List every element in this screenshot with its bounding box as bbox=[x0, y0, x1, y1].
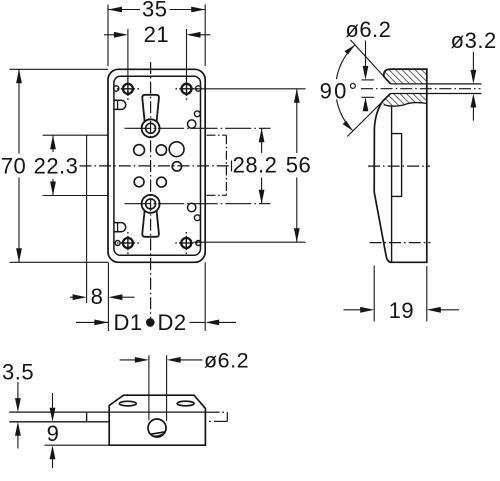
left edge slot 1 bbox=[114, 100, 126, 109]
label dia 6.2 side bbox=[345, 17, 391, 42]
interior hole b bbox=[156, 145, 166, 155]
tongue edge extension line bbox=[86, 135, 88, 303]
dim dia6.2 bottom line bbox=[120, 357, 203, 363]
dim D1 D2 line left bbox=[76, 320, 108, 326]
svg-text:28.2: 28.2 bbox=[233, 153, 278, 178]
dim 22.3 line bbox=[50, 135, 56, 195]
bottom view phantom top bbox=[205, 412, 227, 421]
countersink construction line upper bbox=[350, 40, 390, 84]
dim D2 text bbox=[157, 310, 186, 335]
side view screw hole top line bbox=[391, 83, 482, 85]
right edge hole bottom bbox=[188, 203, 196, 211]
svg-text:90°: 90° bbox=[320, 78, 360, 103]
mounting screw hole 3 with crosshair bbox=[117, 232, 139, 254]
phantom follower box top bbox=[207, 134, 227, 136]
extension line 22.3 bottom bbox=[43, 195, 108, 197]
dim 28.2 text bbox=[233, 153, 278, 178]
svg-text:ø6.2: ø6.2 bbox=[345, 17, 391, 42]
dim 21 extension left bbox=[127, 29, 129, 84]
dim 22.3 text bbox=[34, 153, 79, 178]
label dia 3.2 bbox=[451, 28, 497, 53]
dim D1 D2 line right bbox=[190, 320, 237, 326]
interior hole a bbox=[134, 145, 145, 156]
mounting screw hole 1 with crosshair bbox=[117, 78, 139, 100]
svg-text:ø6.2: ø6.2 bbox=[204, 349, 249, 373]
bottom view tongue end bbox=[86, 412, 88, 422]
interior hole d bbox=[157, 177, 167, 187]
dim 56 line bbox=[294, 89, 300, 242]
svg-text:22.3: 22.3 bbox=[34, 153, 79, 178]
dim 35 line bbox=[108, 7, 205, 13]
dim 21 text bbox=[144, 22, 169, 47]
interior hole c bbox=[134, 177, 144, 187]
plate left edge extended down bbox=[107, 262, 109, 331]
svg-text:56: 56 bbox=[286, 153, 311, 178]
dim 56 text bbox=[286, 153, 311, 178]
phantom follower box bottom bbox=[207, 194, 227, 196]
side view body outline bbox=[374, 69, 427, 262]
bottom view cylinder chord bbox=[150, 432, 165, 436]
edge notch circle top-right bbox=[196, 86, 201, 91]
top keyhole bell bbox=[142, 95, 159, 122]
edge notch circle bottom-left bbox=[115, 241, 120, 246]
edge notch circle top-left bbox=[114, 86, 119, 91]
horizontal mid centerline bbox=[80, 165, 232, 167]
svg-text:3.5: 3.5 bbox=[2, 360, 34, 385]
bottom view plate line A bbox=[9, 411, 205, 413]
svg-text:70: 70 bbox=[1, 153, 26, 178]
dim 19 line bbox=[344, 307, 460, 313]
dim 19 text bbox=[389, 298, 414, 323]
interior hole big bbox=[169, 142, 184, 157]
svg-text:19: 19 bbox=[389, 298, 414, 323]
dim dia6.2 tick top bbox=[362, 79, 375, 81]
svg-text:ø3.2: ø3.2 bbox=[451, 28, 497, 53]
bottom view cylinder hole bbox=[148, 419, 166, 437]
bottom view plate line B bbox=[9, 421, 109, 423]
side view hatch upper bbox=[384, 69, 427, 84]
svg-text:D1: D1 bbox=[113, 310, 142, 335]
side view hole centerline bbox=[361, 88, 481, 90]
side view mid centerline bbox=[368, 165, 430, 167]
extension line 22.3 top bbox=[43, 134, 108, 136]
side view break wavy line bbox=[384, 103, 427, 107]
dim 8 line bbox=[70, 294, 135, 300]
dim 56 extension top bbox=[194, 88, 306, 90]
side view screw hole bottom line bbox=[391, 93, 482, 95]
mounting screw hole 4 with crosshair bbox=[175, 232, 197, 254]
right edge hole top small bbox=[194, 111, 200, 117]
dim 21 extension right bbox=[186, 29, 188, 84]
svg-text:D2: D2 bbox=[157, 310, 186, 335]
bottom keyhole outer circle bbox=[142, 195, 160, 213]
dim 35 extension left bbox=[107, 5, 109, 67]
edge notch circle bottom-right bbox=[196, 241, 201, 246]
dim D1 text bbox=[113, 310, 142, 335]
dim 19 extension left bbox=[373, 266, 375, 322]
left edge slot 2 bbox=[114, 223, 126, 232]
bottom view screw slot right bbox=[177, 401, 194, 406]
right edge hole bottom small bbox=[194, 215, 200, 221]
dim dia6.2 tick bottom bbox=[362, 96, 375, 98]
dim dia6.2 side line bbox=[363, 41, 369, 112]
bottom view screw slot left bbox=[119, 401, 136, 406]
side view inner vertical line bbox=[391, 106, 393, 263]
vertical keyway centerline bbox=[150, 62, 152, 319]
dim 70 text bbox=[1, 153, 26, 178]
svg-text:21: 21 bbox=[144, 22, 169, 47]
svg-text:9: 9 bbox=[47, 421, 60, 446]
label 90 degrees bbox=[320, 78, 360, 103]
dim 35 text bbox=[142, 0, 167, 21]
bottom keyhole bell bbox=[142, 211, 159, 237]
90 degree arc bbox=[336, 45, 355, 131]
dim 8 text bbox=[91, 284, 104, 309]
bottom keyhole horizontal centerline bbox=[125, 203, 271, 205]
countersink construction line lower bbox=[347, 94, 390, 137]
dim 21 line bbox=[104, 32, 211, 38]
side view hatch lower bbox=[383, 94, 427, 107]
dim 35 extension right bbox=[204, 5, 206, 67]
dim 70 extension top bbox=[10, 68, 109, 70]
dim 3.5 text bbox=[2, 360, 34, 385]
interior hole on centerline bbox=[172, 162, 181, 171]
dim dia3.2 line bbox=[471, 52, 477, 121]
lock case front view outer plate outline bbox=[108, 69, 205, 262]
side view lower centerline bbox=[370, 242, 431, 244]
svg-text:8: 8 bbox=[91, 284, 104, 309]
dim 9 line bbox=[50, 393, 56, 468]
front view inner plate outline bbox=[114, 76, 201, 255]
dim 28.2 line bbox=[259, 128, 265, 203]
top keyhole inner circle bbox=[146, 123, 156, 133]
top keyhole outer circle bbox=[142, 119, 160, 137]
node D1 D2 dot bbox=[146, 318, 155, 327]
right edge hole top bbox=[188, 120, 196, 128]
bottom view bottom edge extension bbox=[45, 444, 110, 446]
90 degree text white backing bbox=[320, 79, 362, 99]
side view boss rect bbox=[392, 134, 402, 197]
svg-text:35: 35 bbox=[142, 0, 167, 21]
dim 70 line bbox=[16, 69, 22, 262]
dim 19 extension right bbox=[426, 266, 428, 322]
bottom keyhole inner circle bbox=[146, 199, 156, 209]
bottom view body outline bbox=[109, 395, 205, 445]
dim 70 extension bottom bbox=[10, 261, 109, 263]
plate right edge extended down bbox=[204, 262, 206, 331]
centerline end tick bbox=[231, 161, 233, 172]
label dia 6.2 bottom bbox=[204, 349, 249, 373]
mounting screw hole 2 with crosshair bbox=[176, 78, 198, 100]
dim 3.5 line bbox=[15, 382, 21, 449]
dim 9 text bbox=[47, 421, 60, 446]
dim dia6.2 bottom ext right bbox=[166, 355, 168, 421]
phantom follower box right bbox=[225, 135, 227, 195]
dim 56 extension bottom bbox=[194, 241, 306, 243]
dim dia6.2 bottom ext left bbox=[148, 355, 150, 420]
top keyhole horizontal centerline bbox=[125, 127, 271, 129]
